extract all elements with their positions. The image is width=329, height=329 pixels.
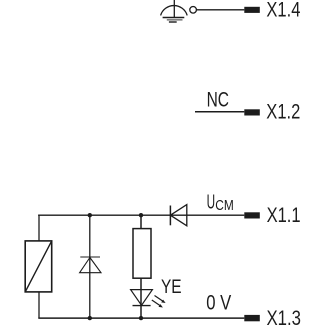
svg-text:YE: YE	[161, 277, 182, 298]
svg-text:X1.4: X1.4	[266, 0, 300, 22]
svg-text:NC: NC	[207, 89, 229, 112]
svg-text:X1.1: X1.1	[267, 204, 301, 227]
svg-text:X1.2: X1.2	[266, 101, 300, 124]
svg-text:CM: CM	[215, 198, 234, 214]
svg-text:X1.3: X1.3	[267, 307, 302, 329]
svg-text:U: U	[207, 192, 216, 214]
svg-text:0 V: 0 V	[206, 292, 231, 315]
